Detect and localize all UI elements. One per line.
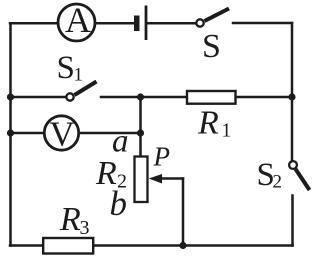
svg-text:V: V	[49, 115, 74, 154]
svg-text:P: P	[153, 142, 171, 172]
svg-text:R: R	[59, 201, 81, 238]
svg-text:a: a	[112, 124, 129, 160]
svg-text:1: 1	[222, 121, 232, 142]
svg-text:1: 1	[74, 65, 84, 86]
svg-text:R: R	[197, 105, 219, 142]
svg-text:S: S	[202, 28, 221, 65]
svg-text:A: A	[65, 0, 91, 40]
svg-text:b: b	[110, 184, 128, 223]
svg-text:S: S	[57, 50, 75, 86]
svg-text:3: 3	[80, 217, 90, 239]
svg-text:2: 2	[273, 172, 283, 193]
